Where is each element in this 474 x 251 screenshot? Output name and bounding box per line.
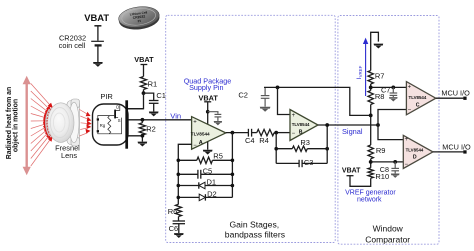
capacitor C6 [173, 221, 185, 233]
diode D1 [199, 182, 205, 189]
svg-text:+: + [292, 113, 296, 119]
node B feedback tap [274, 131, 278, 135]
VBAT terminal tee (R1) [141, 64, 148, 66]
svg-text:Signal: Signal [342, 127, 363, 136]
svg-text:VBAT: VBAT [134, 55, 154, 64]
svg-text:−: − [408, 108, 412, 114]
PIR sensing element [97, 118, 99, 132]
svg-text:VBAT: VBAT [199, 93, 219, 102]
resistor R3 [292, 146, 307, 151]
wire drain row [128, 108, 144, 110]
capacitor C7 [390, 87, 398, 97]
dashed box: window comparator [338, 16, 439, 245]
wire D2 row [178, 196, 232, 198]
ground (op-amp A) [203, 150, 213, 155]
wire feedback right rail [231, 133, 233, 198]
svg-text:R3: R3 [300, 138, 310, 147]
node mid reference [369, 114, 373, 118]
capacitor C5 [198, 170, 201, 179]
svg-text:−: − [193, 143, 197, 149]
label Quad Package Supply Pin [184, 77, 232, 93]
wire R3 row [276, 148, 327, 150]
wire op-amp D output [433, 151, 464, 153]
resistor R2 [139, 123, 145, 135]
node R3 right [325, 147, 329, 151]
resistor R9 [368, 145, 373, 159]
label CR2032 coin cell [59, 34, 86, 50]
svg-text:Supply Pin: Supply Pin [189, 83, 223, 92]
vertical caption: Radiated heat from an object in motion [6, 87, 19, 159]
node R3 left [274, 147, 278, 151]
svg-text:TLV8544: TLV8544 [292, 122, 310, 127]
svg-text:C5: C5 [203, 167, 213, 176]
capacitor C1 [149, 101, 159, 112]
capacitor C4 [248, 129, 251, 137]
PIR pin bar [125, 100, 128, 148]
wire lower threshold to op-amp D [371, 161, 404, 163]
svg-text:network: network [357, 197, 382, 204]
svg-text:R9: R9 [376, 146, 386, 155]
op-amp U1C TLV8544 [406, 82, 435, 115]
ground (C1) [149, 112, 159, 117]
svg-text:−: − [292, 131, 296, 137]
wire C5 row [178, 173, 232, 175]
capacitor C2 [261, 88, 270, 107]
wire R6 to C6 [178, 217, 180, 221]
node lower threshold [369, 160, 373, 164]
svg-text:Vin: Vin [170, 112, 181, 121]
wire op-amp A negative supply [207, 142, 209, 150]
svg-text:R1: R1 [148, 80, 158, 89]
wire C4 to R4 [252, 132, 257, 134]
node R2 top [141, 118, 145, 122]
PIR internal wires [98, 104, 122, 133]
svg-text:C4: C4 [245, 136, 255, 145]
svg-text:Comparator: Comparator [365, 234, 410, 244]
wire vref to B noninverting [264, 87, 371, 115]
wire R10 to VBAT [350, 176, 371, 186]
wire chain rail R8 to R9 [370, 105, 372, 146]
wire C3 row [276, 162, 327, 164]
svg-text:PIR: PIR [100, 92, 113, 101]
terminal MCU I/O (C) [463, 97, 466, 100]
svg-text:D: D [413, 155, 417, 161]
label Gain Stages, bandpass filters [225, 219, 285, 239]
resistor R7 [368, 71, 373, 84]
ground (bypass cap) [214, 121, 222, 125]
current arrow IVREF [356, 38, 368, 96]
wire R2 bottom / source row [128, 135, 142, 142]
svg-text:Lens: Lens [61, 151, 77, 160]
node D1 left [177, 184, 181, 188]
terminal MCU I/O (D) [463, 150, 466, 153]
node C5 left [177, 173, 181, 177]
label: Fresnel Lens [55, 143, 80, 160]
svg-text:Gain Stages,: Gain Stages, [229, 219, 279, 229]
ray arrowheads at lens [43, 103, 53, 142]
ground (C6) [174, 233, 184, 238]
bypass capacitor [215, 114, 222, 121]
wire VBAT to R1 [143, 65, 145, 77]
resistor R4 [257, 129, 274, 135]
wire node to C1 [144, 93, 154, 100]
svg-text:R5: R5 [213, 151, 223, 160]
wire R7 to R8 [370, 84, 372, 91]
node B output [325, 123, 329, 127]
svg-text:TLV8544: TLV8544 [409, 95, 427, 100]
battery CR2032 cell symbol [91, 26, 104, 62]
node R5 right [231, 159, 235, 163]
wire D1 row [178, 185, 232, 187]
wire Vin row [128, 119, 192, 121]
node D2 left [177, 196, 181, 200]
svg-text:R6: R6 [168, 207, 178, 216]
wire op-amp B output / signal [318, 124, 378, 126]
svg-text:+: + [193, 120, 197, 126]
node C2/B+ branch [276, 86, 280, 90]
op-amp U1A TLV8544 [191, 117, 226, 150]
label VREF generator network [345, 190, 396, 204]
diode D2 [199, 194, 205, 201]
dashed box: gain stages / bandpass filters [166, 15, 336, 242]
svg-text:C: C [416, 102, 420, 108]
node R2 bottom [141, 134, 145, 138]
ground (battery) [93, 62, 103, 67]
node C7 branch [391, 86, 395, 90]
capacitor C8 [391, 162, 399, 174]
wire R1 to node [143, 90, 145, 94]
op-amp U1D TLV8544 [403, 135, 433, 168]
capacitor C3 [299, 160, 302, 167]
wire op-amp A output [226, 132, 249, 134]
svg-text:B: B [299, 129, 303, 135]
wire branch to B+ [278, 87, 291, 114]
svg-text:Rg: Rg [100, 123, 106, 128]
wire op-amp C output [436, 97, 464, 99]
svg-text:C1: C1 [156, 91, 166, 100]
op-amp U1B TLV8544 [290, 110, 318, 141]
svg-text:VBAT: VBAT [342, 168, 361, 175]
svg-text:TLV8544: TLV8544 [191, 132, 210, 137]
svg-text:Window: Window [373, 224, 404, 234]
Fresnel lens drawing [46, 99, 80, 146]
node C5 right [231, 173, 235, 177]
ground (C7) [389, 97, 398, 101]
wire R2 top stub [141, 120, 143, 123]
svg-text:D1: D1 [207, 178, 217, 187]
svg-text:VBAT: VBAT [84, 12, 109, 23]
resistor R1 [140, 77, 146, 90]
rays from lens to PIR [80, 110, 89, 137]
svg-text:−: − [405, 162, 409, 168]
wire signal branch to comparator inputs [378, 110, 406, 140]
node supply branch [206, 110, 210, 114]
ground (R2) [138, 142, 148, 147]
node R5 left [177, 159, 181, 163]
node A output [231, 131, 235, 135]
node D1 right [231, 184, 235, 188]
svg-text:R8: R8 [375, 92, 385, 101]
PIR FET bar [114, 110, 116, 119]
wire node down to drain [128, 93, 144, 109]
svg-text:object in motion: object in motion [13, 99, 20, 152]
svg-text:S: S [118, 118, 121, 123]
svg-text:C3: C3 [304, 158, 314, 167]
svg-text:bandpass filters: bandpass filters [225, 230, 285, 240]
svg-text:R7: R7 [375, 72, 385, 81]
svg-text:A: A [199, 140, 203, 146]
svg-text:coin cell: coin cell [59, 41, 86, 50]
node R1/C1/drain [142, 91, 146, 95]
svg-text:+: + [408, 84, 412, 90]
svg-text:R4: R4 [259, 136, 269, 145]
node signal branch [376, 123, 380, 127]
wire VBAT to op-amp A [207, 102, 209, 124]
double-headed motion arrow [23, 76, 31, 175]
node VREF upper [369, 86, 373, 90]
ground (chain top) [374, 44, 384, 49]
resistor R10 [368, 168, 373, 178]
ground (C2) [260, 107, 271, 112]
svg-text:C6: C6 [169, 224, 179, 233]
resistor R6 [176, 204, 182, 216]
svg-text:C2: C2 [238, 90, 248, 99]
label Window Comparator [365, 224, 410, 245]
node C8 branch [393, 160, 397, 164]
wire R9 to R10 [370, 159, 372, 168]
wire inverting input to left rail [178, 144, 192, 204]
wire upper threshold to op-amp C [371, 86, 407, 88]
wire chain rail top hook [371, 32, 379, 70]
wire to bypass cap [208, 112, 218, 114]
wire stage2 left rail [275, 133, 277, 164]
coin cell photo [117, 4, 160, 31]
wire R5 row [178, 159, 232, 161]
svg-text:+: + [405, 137, 409, 143]
svg-text:MCU I/O: MCU I/O [441, 88, 470, 97]
wire R4 to op-amp B [274, 132, 290, 134]
wire stage2 right rail [326, 125, 328, 163]
svg-text:R10: R10 [375, 172, 389, 181]
radiated heat rays (left fan) [31, 84, 52, 167]
svg-text:R2: R2 [146, 124, 156, 133]
svg-text:D: D [116, 105, 119, 110]
PIR resistor Rg [108, 116, 111, 134]
resistor R8 [368, 91, 373, 105]
ground (C8) [391, 174, 400, 178]
svg-text:TLV8544: TLV8544 [406, 147, 424, 152]
svg-text:D2: D2 [207, 190, 217, 199]
PIR sensor body [93, 104, 129, 145]
ray arrowheads at PIR [86, 112, 92, 134]
VBAT terminal tee (A) [204, 101, 211, 103]
svg-text:MCU I/O: MCU I/O [442, 142, 471, 151]
VBAT terminal tee (VREF gen) [347, 175, 354, 177]
resistor R5 [197, 157, 213, 163]
